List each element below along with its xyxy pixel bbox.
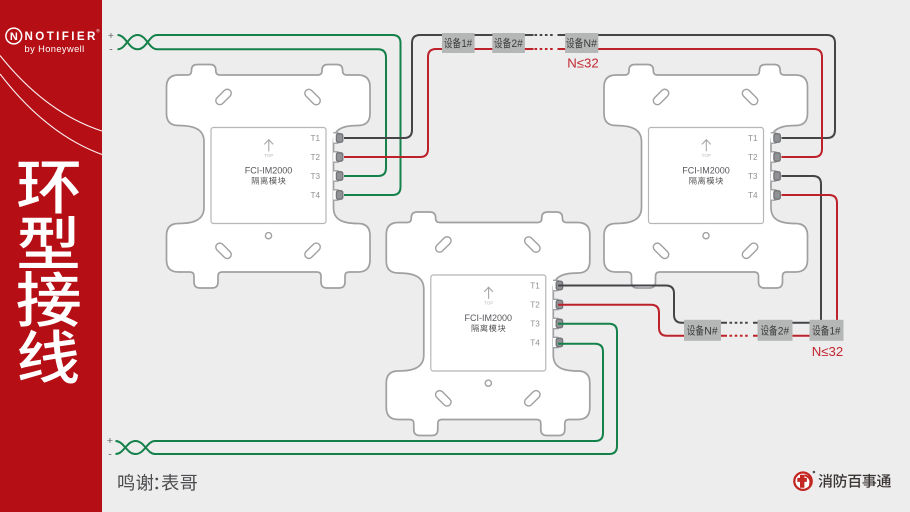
消防百事通 logo icon xyxy=(794,471,815,490)
mounting slot bottom-left xyxy=(214,241,233,260)
label 隔离模块 xyxy=(252,177,286,185)
black wire: bottom device bus dashed continuation xyxy=(730,322,748,324)
mounting slot top-right xyxy=(741,88,760,107)
svg-text:T1: T1 xyxy=(310,134,320,143)
mounting slot bottom-right xyxy=(303,241,322,260)
credit text 鸣谢:表哥 xyxy=(118,474,197,491)
device box 设备N# (top row) xyxy=(565,33,598,53)
red wire: M1 T2 up to top device bus (left segment) xyxy=(344,49,534,157)
svg-text:N#: N# xyxy=(584,38,597,50)
terminal T3 xyxy=(310,171,342,181)
terminal T1 xyxy=(530,280,562,290)
svg-text:by Honeywell: by Honeywell xyxy=(25,44,85,54)
svg-text:TOP: TOP xyxy=(702,153,711,158)
screw hole xyxy=(703,233,709,239)
mounting slot top-left xyxy=(434,235,453,254)
terminal T4 xyxy=(310,190,342,200)
decorative arc 1 xyxy=(0,56,102,132)
svg-text:+: + xyxy=(107,435,113,447)
device box 设备1# (bottom row) xyxy=(810,320,844,341)
black wire: M2 T3 down to bottom device bus xyxy=(782,176,822,332)
loop + wire top twisted pair (upper conductor) xyxy=(118,35,158,49)
svg-text:TOP: TOP xyxy=(484,301,493,306)
mounting slot top-left xyxy=(214,88,233,107)
svg-text:1#: 1# xyxy=(461,38,472,50)
terminal T1 xyxy=(748,133,780,143)
vertical title 环型接线 xyxy=(17,162,79,384)
decorative arc 2 xyxy=(0,74,102,155)
terminal T4 xyxy=(530,337,562,347)
svg-text:N#: N# xyxy=(704,325,717,337)
terminal T4 xyxy=(748,190,780,200)
mounting slot bottom-left xyxy=(652,241,671,260)
screw hole xyxy=(485,380,491,386)
svg-text:T3: T3 xyxy=(530,320,540,329)
black wire: top device bus to module M2 terminal T1 xyxy=(558,35,836,138)
device box 设备1# (top row) xyxy=(442,33,475,53)
device box 设备N# (bottom row) xyxy=(684,320,721,341)
screw hole xyxy=(265,233,271,239)
black wire: M1 T1 up to top device bus (left segment) xyxy=(344,35,534,138)
svg-text:T1: T1 xyxy=(748,134,758,143)
svg-text:T3: T3 xyxy=(748,172,758,181)
TOP orientation arrow xyxy=(264,140,273,152)
terminal T3 xyxy=(748,171,780,181)
red sidebar panel xyxy=(0,0,102,512)
svg-text:T2: T2 xyxy=(748,153,758,162)
mounting slot top-right xyxy=(523,235,542,254)
TOP orientation arrow xyxy=(484,287,493,299)
terminal T2 xyxy=(748,152,780,162)
green wire: - trunk to module M1 terminal T3 xyxy=(157,49,386,176)
red wire: M2 T4 down to bottom device bus xyxy=(782,195,838,332)
svg-text:T1: T1 xyxy=(530,282,540,291)
svg-text:T4: T4 xyxy=(748,191,758,200)
loop - wire top twisted pair (lower conductor) xyxy=(118,35,158,49)
svg-text:T2: T2 xyxy=(310,153,320,162)
mounting slot bottom-right xyxy=(741,241,760,260)
label 隔离模块 xyxy=(689,177,723,185)
mounting slot bottom-right xyxy=(523,389,542,408)
svg-text:FCI-IM2000: FCI-IM2000 xyxy=(682,165,730,175)
terminal T1 xyxy=(310,133,342,143)
消防百事通 logo text xyxy=(819,474,891,488)
isolator module M2 (FCI-IM2000 mounting plate) xyxy=(604,65,808,289)
svg-text:N≤32: N≤32 xyxy=(567,55,598,70)
green wire: M3 T4 down to bottom return pair (+) xyxy=(157,344,603,441)
svg-text:N: N xyxy=(10,31,18,43)
terminal T2 xyxy=(310,152,342,162)
black wire: top device bus dashed continuation xyxy=(535,34,553,36)
module label plate xyxy=(649,128,764,224)
red wire: bottom device bus right segment into device 1# xyxy=(753,335,838,337)
svg-text:TOP: TOP xyxy=(264,153,273,158)
mounting slot bottom-left xyxy=(434,389,453,408)
svg-text:®: ® xyxy=(96,28,100,34)
svg-text:NOTIFIER: NOTIFIER xyxy=(25,30,98,43)
svg-text:FCI-IM2000: FCI-IM2000 xyxy=(245,165,293,175)
device box 设备2# (bottom row) xyxy=(758,320,793,341)
TOP orientation arrow xyxy=(702,140,711,152)
black wire: M3 T1 to bottom device bus (left segment) xyxy=(558,286,727,323)
red wire: M3 T2 to bottom device bus (left segment) xyxy=(558,305,727,336)
terminal T3 xyxy=(530,318,562,328)
svg-text:1#: 1# xyxy=(830,325,841,337)
svg-text:-: - xyxy=(108,448,112,460)
device box 设备2# (top row) xyxy=(492,33,525,53)
red wire: top device bus to module M2 terminal T2 xyxy=(558,49,823,157)
green wire: M3 T3 down to bottom return pair (-) xyxy=(157,324,617,454)
svg-text:2#: 2# xyxy=(778,325,789,337)
label 隔离模块 xyxy=(472,324,506,332)
svg-text:FCI-IM2000: FCI-IM2000 xyxy=(465,313,513,323)
red wire: top device bus dashed continuation xyxy=(535,48,553,50)
green wire: + trunk to module M1 terminal T4 xyxy=(157,35,401,195)
isolator module M1 (FCI-IM2000 mounting plate) xyxy=(167,65,371,289)
svg-text:T4: T4 xyxy=(310,191,320,200)
svg-text:T3: T3 xyxy=(310,172,320,181)
svg-text:+: + xyxy=(108,30,114,42)
black wire: bottom device bus right segment into device 1# xyxy=(753,322,830,324)
mounting slot top-left xyxy=(652,88,671,107)
module label plate xyxy=(211,128,326,224)
svg-text:N≤32: N≤32 xyxy=(812,344,843,359)
mounting slot top-right xyxy=(303,88,322,107)
loop + wire bottom twisted pair (upper conductor) xyxy=(116,441,158,454)
svg-text:2#: 2# xyxy=(512,38,523,50)
svg-text:T2: T2 xyxy=(530,301,540,310)
svg-text:-: - xyxy=(109,44,113,56)
loop - wire bottom twisted pair (lower conductor) xyxy=(116,441,158,454)
NOTIFIER logo circle N xyxy=(6,28,22,44)
isolator module M3 (FCI-IM2000 mounting plate) xyxy=(386,212,590,436)
module label plate xyxy=(431,275,546,371)
terminal T2 xyxy=(530,299,562,309)
red wire: bottom device bus dashed continuation xyxy=(730,335,748,337)
svg-text:T4: T4 xyxy=(530,339,540,348)
